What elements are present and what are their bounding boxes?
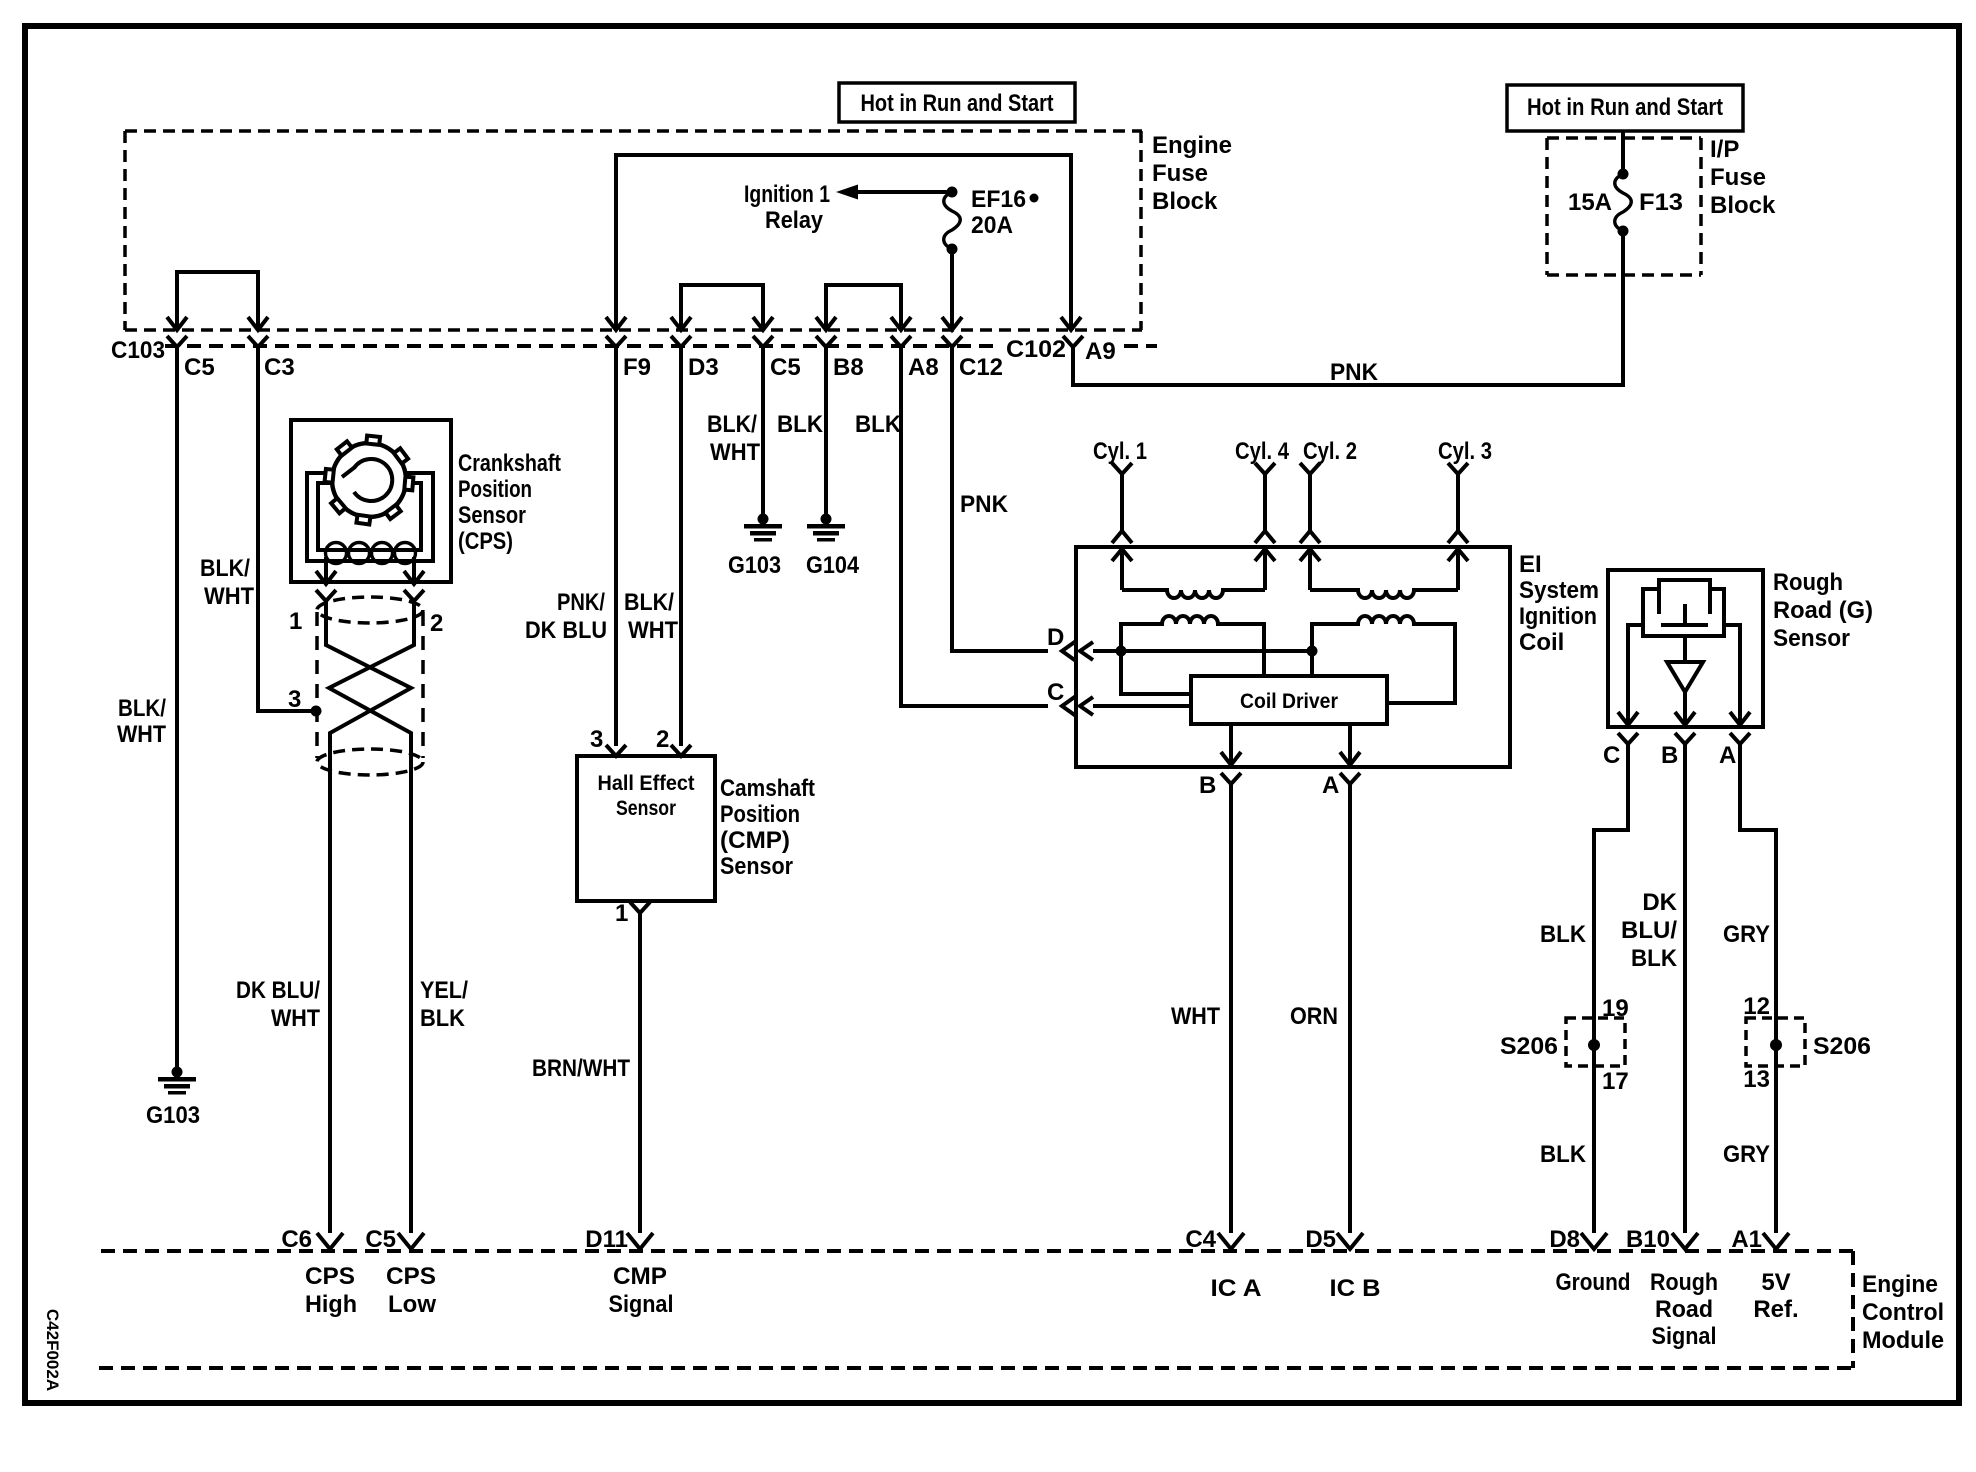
- shield: dashed loop around twisted pair: [317, 597, 423, 775]
- wire: C12 PNK to coil D terminal: [952, 347, 1048, 651]
- svg-text:Sensor: Sensor: [458, 502, 526, 529]
- svg-text:WHT: WHT: [710, 439, 760, 466]
- node Cyl. 1: [1093, 438, 1147, 590]
- svg-text:Sensor: Sensor: [616, 797, 676, 820]
- svg-text:G104: G104: [806, 552, 860, 579]
- ECM pin D5: [1337, 1233, 1363, 1249]
- CPS reluctor wheel: [325, 436, 414, 525]
- svg-text:A9: A9: [1085, 338, 1116, 365]
- ECM pin A1: [1763, 1233, 1789, 1249]
- svg-text:Hall Effect: Hall Effect: [598, 772, 695, 795]
- CPS output arrows: [316, 557, 424, 584]
- svg-text:EF16: EF16: [971, 186, 1026, 213]
- secondary winding coil 1/4: [1122, 590, 1265, 598]
- label: DK BLU/WHT: [236, 977, 320, 1032]
- wire: twisted pair CPS Low: [329, 601, 414, 1233]
- svg-text:Cyl. 1: Cyl. 1: [1093, 438, 1147, 465]
- label: BLK/WHT (pair): [200, 555, 254, 610]
- svg-text:20A: 20A: [971, 212, 1013, 239]
- svg-text:Fuse: Fuse: [1152, 160, 1208, 187]
- label: Engine Control Module: [1862, 1271, 1944, 1354]
- svg-text:WHT: WHT: [117, 721, 166, 748]
- svg-text:A: A: [1322, 772, 1339, 799]
- splice S206 (right): [1746, 1018, 1805, 1066]
- svg-text:F13: F13: [1639, 189, 1683, 216]
- svg-text:Engine: Engine: [1152, 132, 1232, 159]
- svg-text:Position: Position: [458, 476, 532, 503]
- svg-text:Low: Low: [388, 1291, 436, 1318]
- label: CPS Low: [386, 1263, 436, 1318]
- svg-text:B: B: [1199, 772, 1216, 799]
- label: PNK/DK BLU: [525, 589, 607, 644]
- ECM pin C5: [398, 1233, 424, 1249]
- svg-text:BLK: BLK: [1540, 1141, 1587, 1168]
- svg-text:(CPS): (CPS): [458, 528, 513, 555]
- svg-text:BLK: BLK: [1540, 921, 1587, 948]
- svg-text:Hot in Run and Start: Hot in Run and Start: [1527, 94, 1723, 121]
- CPS pin 1 female: [316, 590, 336, 601]
- node Cyl. 2: [1300, 438, 1357, 590]
- svg-text:C5: C5: [770, 354, 801, 381]
- wire: GRY 5V ref from A to A1: [1740, 744, 1776, 1233]
- svg-text:C4: C4: [1185, 1226, 1216, 1253]
- svg-text:3: 3: [590, 726, 603, 753]
- EI System Ignition Coil box: [1076, 547, 1510, 767]
- svg-text:A8: A8: [908, 354, 939, 381]
- wire: ORN IC B to D5: [1348, 784, 1352, 1233]
- svg-text:Ground: Ground: [1556, 1269, 1631, 1296]
- node Cyl. 3: [1438, 438, 1492, 590]
- svg-text:WHT: WHT: [271, 1005, 320, 1032]
- svg-text:Fuse: Fuse: [1710, 164, 1766, 191]
- svg-text:DK BLU: DK BLU: [525, 617, 607, 644]
- svg-text:DK BLU/: DK BLU/: [236, 977, 320, 1004]
- wire: C5 BLK to G103 (mid): [761, 347, 765, 514]
- Hall pin 1 female: [630, 902, 650, 913]
- wire: C terminal line to coil driver: [1080, 697, 1191, 715]
- node Cyl. 4: [1235, 438, 1290, 590]
- svg-text:Hot in Run and Start: Hot in Run and Start: [861, 90, 1054, 117]
- svg-text:13: 13: [1743, 1066, 1770, 1093]
- CPS pickup coil: [326, 543, 416, 564]
- svg-text:Engine: Engine: [1862, 1271, 1938, 1298]
- label: DK BLU/BLK: [1621, 889, 1678, 972]
- svg-text:Road (G): Road (G): [1773, 597, 1873, 624]
- svg-text:Block: Block: [1710, 192, 1776, 219]
- svg-text:PNK: PNK: [960, 491, 1009, 518]
- svg-text:I/P: I/P: [1710, 136, 1739, 163]
- label: BLK/WHT (left): [117, 695, 166, 748]
- svg-text:C5: C5: [184, 354, 215, 381]
- wire: junction to coil driver left: [1121, 651, 1191, 694]
- primary winding 1: [1121, 616, 1264, 676]
- coil terminal D female: [1062, 641, 1076, 661]
- svg-text:Road: Road: [1655, 1296, 1713, 1323]
- ECM pin C6: [317, 1233, 343, 1249]
- svg-text:B8: B8: [833, 354, 864, 381]
- label: Crankshaft Position Sensor (CPS): [458, 450, 561, 555]
- wire: bridge D3-C5: [681, 285, 763, 327]
- svg-text:Ignition 1: Ignition 1: [744, 181, 830, 208]
- svg-text:G103: G103: [728, 552, 781, 579]
- svg-text:BLK: BLK: [420, 1005, 466, 1032]
- svg-text:C3: C3: [264, 354, 295, 381]
- svg-text:(CMP): (CMP): [720, 827, 790, 854]
- svg-text:17: 17: [1602, 1068, 1629, 1095]
- svg-text:BLK/: BLK/: [624, 589, 674, 616]
- wire: D feed line: [1080, 642, 1312, 660]
- ECM pin C4: [1218, 1233, 1244, 1249]
- svg-text:D: D: [1047, 624, 1064, 651]
- title box: Hot in Run and Start (left): [839, 83, 1075, 122]
- svg-text:Cyl. 2: Cyl. 2: [1303, 438, 1357, 465]
- svg-text:YEL/: YEL/: [420, 977, 468, 1004]
- svg-text:Ref.: Ref.: [1753, 1296, 1798, 1323]
- ECM pin B10: [1672, 1233, 1698, 1249]
- splice S206 (left): [1566, 1018, 1625, 1066]
- svg-text:C42F002A: C42F002A: [43, 1309, 62, 1391]
- svg-text:IC B: IC B: [1330, 1275, 1381, 1302]
- svg-text:C: C: [1047, 679, 1064, 706]
- wire: from Hot box into fuse F13: [1621, 131, 1625, 174]
- svg-text:1: 1: [289, 608, 302, 635]
- Engine Fuse Block dashed box: [125, 131, 1142, 330]
- svg-text:B: B: [1661, 742, 1678, 769]
- svg-text:2: 2: [656, 726, 669, 753]
- connector females on C103/C102 line: [167, 336, 187, 347]
- svg-text:CPS: CPS: [386, 1263, 436, 1290]
- svg-text:CPS: CPS: [305, 1263, 355, 1290]
- connector arrows at fuse block edge: [167, 317, 187, 330]
- label: BLK/WHT (D3 wire, upper): [707, 411, 760, 466]
- sensor pin females C B A: [1618, 733, 1638, 744]
- svg-text:Control: Control: [1862, 1299, 1944, 1326]
- svg-text:BLU/: BLU/: [1621, 917, 1677, 944]
- svg-text:ORN: ORN: [1290, 1003, 1338, 1030]
- label: CPS High: [305, 1263, 357, 1318]
- Rough Road (G) Sensor box: [1608, 570, 1763, 727]
- svg-text:Block: Block: [1152, 188, 1218, 215]
- Hall pin 2 female: [671, 745, 691, 756]
- sensor output A wire: [1724, 625, 1750, 725]
- wire: Ignition 1 Relay feed arrow: [836, 185, 952, 200]
- svg-text:WHT: WHT: [204, 583, 254, 610]
- title box: Hot in Run and Start (right): [1507, 85, 1743, 131]
- svg-text:Coil Driver: Coil Driver: [1240, 690, 1338, 713]
- ground G103 (left): [158, 1067, 196, 1095]
- svg-text:High: High: [305, 1291, 357, 1318]
- wire: D3 BLK/WHT down to Hall pin 2: [679, 347, 683, 746]
- wire: F9 PNK/DK BLU down to Hall pin 3: [614, 347, 618, 746]
- svg-text:BLK: BLK: [777, 411, 824, 438]
- svg-text:Ignition: Ignition: [1519, 603, 1597, 630]
- svg-text:Signal: Signal: [609, 1291, 674, 1318]
- svg-text:5V: 5V: [1761, 1269, 1790, 1296]
- svg-text:A1: A1: [1731, 1226, 1762, 1253]
- coil driver output B: [1221, 724, 1241, 784]
- svg-text:BLK/: BLK/: [118, 695, 166, 722]
- label: BLK/WHT (D3 column): [624, 589, 678, 644]
- svg-text:C12: C12: [959, 354, 1003, 381]
- svg-text:D5: D5: [1305, 1226, 1336, 1253]
- wire: PNK from F13 to A9: [1073, 231, 1623, 385]
- svg-text:Sensor: Sensor: [720, 853, 793, 880]
- svg-text:Module: Module: [1862, 1327, 1944, 1354]
- svg-text:Signal: Signal: [1652, 1323, 1717, 1350]
- svg-text:Coil: Coil: [1519, 629, 1564, 656]
- svg-text:EI: EI: [1519, 551, 1542, 578]
- svg-text:Relay: Relay: [765, 207, 824, 234]
- label: CMP Signal: [609, 1263, 674, 1318]
- svg-text:Rough: Rough: [1773, 569, 1843, 596]
- wire: hot bus F9 to A9 inside fuse block: [616, 155, 1071, 327]
- crankshaft position sensor CPS box: [291, 420, 451, 582]
- svg-text:D3: D3: [688, 354, 719, 381]
- buffer triangle: [1667, 636, 1703, 692]
- svg-text:3: 3: [288, 686, 301, 713]
- wire: C5 BLK/WHT down to G103: [175, 347, 179, 1067]
- svg-text:DK: DK: [1642, 889, 1677, 916]
- svg-text:BLK: BLK: [1631, 945, 1678, 972]
- label: Rough Road (G) Sensor: [1773, 569, 1873, 652]
- CPS inner housing rects: [307, 473, 433, 561]
- node: junction dot primary 2: [1307, 646, 1318, 657]
- connector C103/C102 dashed line: [165, 344, 1000, 348]
- svg-text:15A: 15A: [1568, 189, 1612, 216]
- svg-text:1: 1: [615, 900, 628, 927]
- svg-text:S206: S206: [1500, 1033, 1558, 1060]
- svg-text:D8: D8: [1549, 1226, 1580, 1253]
- svg-text:Position: Position: [720, 801, 800, 828]
- svg-text:PNK: PNK: [1330, 359, 1379, 386]
- label: Ignition 1 Relay: [744, 181, 830, 234]
- label: I/P Fuse Block: [1710, 136, 1776, 219]
- secondary winding coil 2/3: [1310, 590, 1458, 598]
- Engine Control Module dashed box: [99, 1251, 1853, 1368]
- ECM pin D8: [1581, 1233, 1607, 1249]
- svg-text:CMP: CMP: [613, 1263, 667, 1290]
- label: Hall Effect Sensor: [598, 772, 695, 820]
- svg-text:GRY: GRY: [1723, 921, 1770, 948]
- svg-text:WHT: WHT: [1171, 1003, 1220, 1030]
- svg-text:BRN/WHT: BRN/WHT: [532, 1055, 630, 1082]
- wire: C3 BLK/WHT to shield node 3: [258, 347, 312, 711]
- node: junction dot on D line: [1116, 646, 1127, 657]
- svg-text:GRY: GRY: [1723, 1141, 1770, 1168]
- svg-text:IC A: IC A: [1211, 1275, 1262, 1302]
- svg-text:C: C: [1603, 742, 1620, 769]
- sensor output C wire: [1618, 625, 1643, 725]
- I/P Fuse Block dashed box: [1547, 138, 1701, 275]
- sensor output B wire: [1675, 692, 1695, 725]
- wire: DK BLU/BLK rough road signal to B10: [1683, 744, 1687, 1233]
- wire: BRN/WHT CMP signal to D11: [638, 913, 642, 1233]
- coil terminal C female: [1062, 696, 1076, 716]
- svg-text:System: System: [1519, 577, 1599, 604]
- wire: B8 BLK to G104: [824, 347, 828, 514]
- svg-text:Cyl. 3: Cyl. 3: [1438, 438, 1492, 465]
- svg-text:BLK: BLK: [855, 411, 902, 438]
- svg-text:BLK/: BLK/: [707, 411, 757, 438]
- primary winding 2: [1312, 616, 1455, 703]
- wire: WHT IC A to C4: [1229, 784, 1233, 1233]
- wire: bridge B8-A8: [826, 285, 901, 327]
- wire: BLK ground from C to D8: [1594, 744, 1628, 1233]
- svg-text:S206: S206: [1813, 1033, 1871, 1060]
- Hall pin 3 female: [606, 745, 626, 756]
- fuse EF16 20A: [944, 187, 961, 255]
- svg-text:Rough: Rough: [1650, 1269, 1718, 1296]
- label: EI System Ignition Coil: [1519, 551, 1599, 656]
- label: YEL/BLK: [420, 977, 468, 1032]
- Hall Effect Sensor box: [577, 756, 715, 901]
- Coil Driver box: [1191, 676, 1387, 724]
- svg-text:D11: D11: [585, 1226, 628, 1253]
- label: 5V Ref.: [1753, 1269, 1798, 1323]
- svg-text:A: A: [1719, 742, 1736, 769]
- svg-text:19: 19: [1602, 995, 1629, 1022]
- wire: bridge C5-C3 (left): [177, 272, 258, 327]
- svg-text:C103: C103: [111, 337, 165, 364]
- fuse F13 15A: [1615, 169, 1632, 237]
- ground G103 (mid): [744, 514, 782, 542]
- svg-text:B10: B10: [1626, 1226, 1670, 1253]
- label: Camshaft Position (CMP) Sensor: [720, 775, 815, 880]
- svg-text:C5: C5: [365, 1226, 396, 1253]
- coil driver output A: [1340, 724, 1360, 784]
- svg-text:12: 12: [1743, 993, 1770, 1020]
- svg-text:F9: F9: [623, 354, 651, 381]
- ECM pin D11: [627, 1233, 653, 1249]
- label: Rough Road Signal: [1650, 1269, 1718, 1350]
- ground G104: [807, 514, 845, 542]
- svg-text:C102: C102: [1006, 336, 1066, 363]
- svg-text:Camshaft: Camshaft: [720, 775, 815, 802]
- svg-text:2: 2: [430, 610, 443, 637]
- wire: A8 BLK to coil C terminal: [901, 347, 1048, 706]
- svg-text:WHT: WHT: [628, 617, 678, 644]
- svg-text:C6: C6: [281, 1226, 312, 1253]
- svg-text:BLK/: BLK/: [200, 555, 250, 582]
- node: shield junction dot: [311, 706, 322, 717]
- wire: fuse EF16 down to C12: [950, 249, 954, 327]
- label: EF16 20A: [971, 186, 1039, 239]
- wire: twisted pair CPS High: [326, 601, 411, 1233]
- svg-text:Cyl. 4: Cyl. 4: [1235, 438, 1290, 465]
- label: Engine Fuse Block: [1152, 132, 1232, 215]
- accelerometer element: [1643, 580, 1724, 636]
- svg-text:Crankshaft: Crankshaft: [458, 450, 561, 477]
- svg-text:G103: G103: [146, 1102, 200, 1129]
- svg-text:PNK/: PNK/: [557, 589, 605, 616]
- wire: primary 2 tap to driver top: [1310, 651, 1314, 676]
- CPS pin 2 female: [404, 590, 424, 601]
- svg-text:Sensor: Sensor: [1773, 625, 1850, 652]
